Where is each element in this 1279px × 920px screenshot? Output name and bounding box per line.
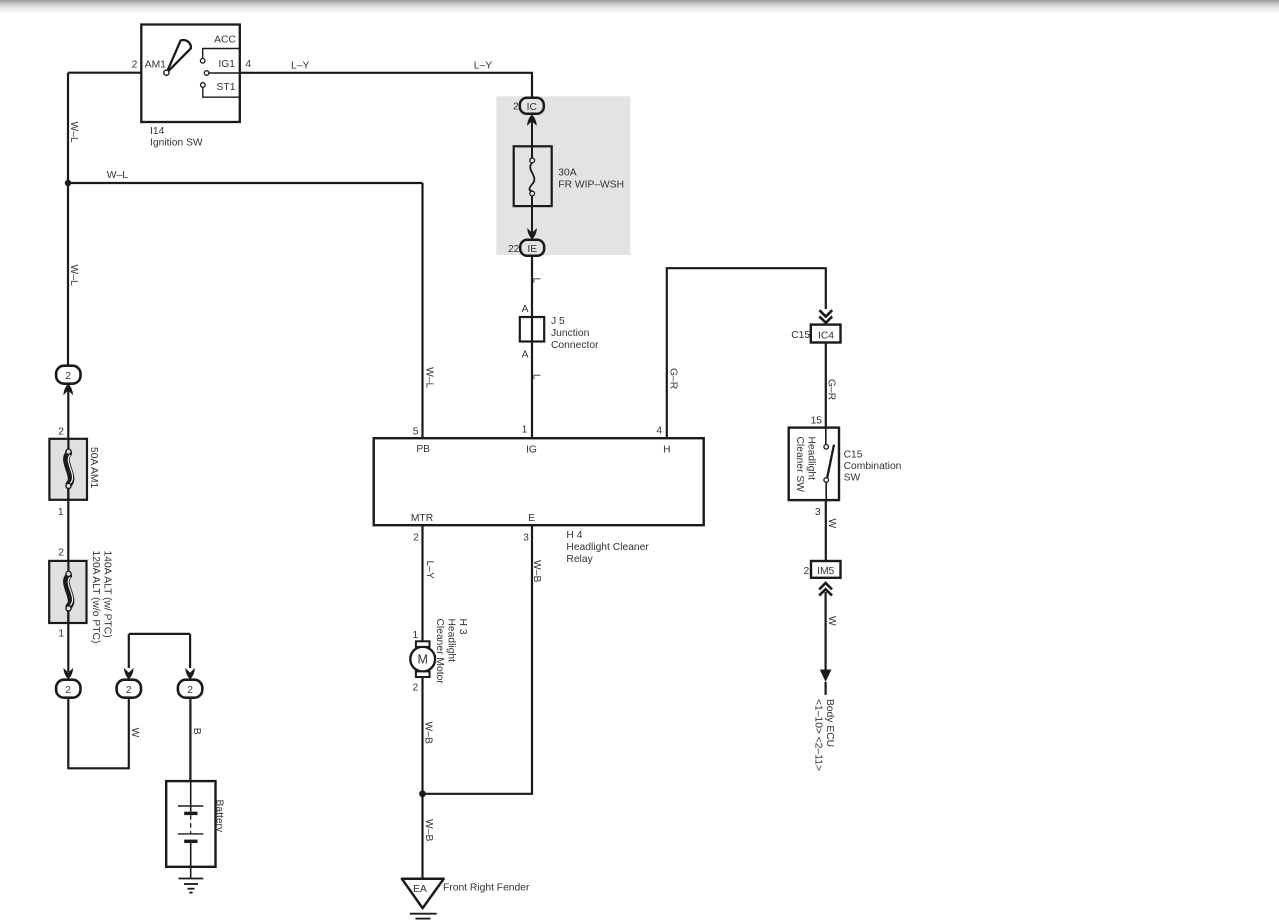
svg-text:IM5: IM5 xyxy=(817,566,834,577)
wire L-Y ignition pin4 to IC xyxy=(240,73,532,99)
pin 1 label (IG) xyxy=(522,424,528,435)
svg-text:1: 1 xyxy=(522,424,528,435)
svg-text:E: E xyxy=(528,513,535,524)
svg-text:W–L: W–L xyxy=(107,170,128,181)
label G-R rotated right xyxy=(826,379,837,400)
wire E to W-B junction xyxy=(423,525,533,794)
svg-text:Headlight: Headlight xyxy=(806,437,817,481)
arrow into IE xyxy=(527,228,537,239)
svg-text:G–R: G–R xyxy=(826,379,837,400)
svg-text:140A ALT (w/ PTC): 140A ALT (w/ PTC) xyxy=(101,551,112,638)
svg-text:2: 2 xyxy=(126,685,132,696)
svg-text:G–R: G–R xyxy=(668,368,679,389)
svg-text:2: 2 xyxy=(65,685,71,696)
fuse 30A FR WIP-WSH xyxy=(514,146,552,206)
svg-text:H 3: H 3 xyxy=(457,619,468,635)
pin 2 label (MTR) xyxy=(413,533,419,544)
wire combination SW to IM5 xyxy=(825,500,827,561)
pin 2 label (ALT fuse) xyxy=(58,547,64,558)
ignition switch I14 box xyxy=(141,25,240,123)
svg-text:W–L: W–L xyxy=(68,265,79,286)
connector IM5 xyxy=(811,561,841,578)
pin 3 label (E) xyxy=(523,533,529,544)
svg-text:Junction: Junction xyxy=(551,328,590,339)
arrow into IC xyxy=(527,115,537,126)
svg-text:2: 2 xyxy=(65,371,71,382)
junction node W-L xyxy=(65,180,71,186)
svg-text:C15: C15 xyxy=(844,449,863,460)
connector oval 2 right xyxy=(178,680,202,698)
svg-text:Front Right Fender: Front Right Fender xyxy=(443,883,530,894)
pin label IG xyxy=(526,445,537,456)
wire PB vertical xyxy=(421,183,423,438)
wire fuse 30A to IE xyxy=(531,196,533,234)
svg-text:AM1: AM1 xyxy=(145,60,166,71)
svg-text:W–B: W–B xyxy=(423,819,434,841)
battery xyxy=(166,781,215,878)
caption Battery rotated xyxy=(214,800,225,833)
svg-text:2: 2 xyxy=(804,566,810,577)
svg-text:ACC: ACC xyxy=(214,35,236,46)
label 50A AM1 rotated xyxy=(88,447,99,488)
label B rotated xyxy=(191,728,202,735)
wire right oval to battery xyxy=(189,698,191,806)
svg-text:2: 2 xyxy=(413,682,419,693)
svg-text:H: H xyxy=(663,445,670,456)
svg-text:L–Y: L–Y xyxy=(291,60,309,71)
svg-text:EA: EA xyxy=(413,884,427,895)
connector oval 2 top xyxy=(56,366,80,384)
label G-R rotated left segment xyxy=(668,368,679,389)
ground EA triangle xyxy=(402,879,444,919)
svg-text:Cleaner Motor: Cleaner Motor xyxy=(434,619,445,685)
svg-text:I14: I14 xyxy=(150,126,165,137)
wire fuse 50A to fuse ALT xyxy=(67,489,69,574)
contact IG1 xyxy=(204,71,209,76)
svg-text:50A AM1: 50A AM1 xyxy=(88,447,99,488)
pin 2 label (50A AM1) xyxy=(58,427,64,438)
wire AM1 pin 2 to left bus xyxy=(68,72,141,74)
label W rotated xyxy=(129,728,140,738)
arrow to Body ECU xyxy=(820,670,832,695)
ACC bracket wire xyxy=(203,49,240,59)
wire motor to W-B junction xyxy=(421,677,423,794)
contact AM1 pivot xyxy=(164,70,169,75)
svg-text:FR WIP–WSH: FR WIP–WSH xyxy=(558,180,624,191)
svg-text:<1–10> <2–11>: <1–10> <2–11> xyxy=(812,699,823,771)
svg-text:J 5: J 5 xyxy=(551,316,565,327)
label W-B rotated lower xyxy=(423,819,434,841)
fuse 50A AM1 xyxy=(49,439,87,500)
arrow into top 2 oval xyxy=(63,384,73,395)
svg-text:W: W xyxy=(826,519,837,529)
pin label E xyxy=(528,513,535,524)
svg-text:Body ECU: Body ECU xyxy=(824,699,835,747)
pin 1 label (50A AM1) xyxy=(58,507,64,518)
svg-text:4: 4 xyxy=(245,59,251,70)
label W-L upper left rotated xyxy=(68,122,79,143)
label A above J5 xyxy=(522,304,529,315)
double chevron into IC4 xyxy=(819,310,832,323)
label W rotated lower xyxy=(826,616,837,626)
svg-text:Relay: Relay xyxy=(566,554,593,565)
contact ACC xyxy=(200,59,205,64)
switch contacts and lever xyxy=(824,445,834,501)
wire MTR to motor xyxy=(421,525,423,641)
svg-text:Headlight: Headlight xyxy=(445,619,456,663)
pin 2 label (motor bottom) xyxy=(413,682,419,693)
label A below J5 xyxy=(522,350,529,361)
svg-text:3: 3 xyxy=(815,507,821,518)
label W-L on PB wire rotated xyxy=(424,367,435,388)
label L-Y rotated on MTR wire xyxy=(424,561,435,579)
label 140A ALT (w PTC) 120A ALT (wo PTC) rotated xyxy=(90,551,113,644)
svg-text:SW: SW xyxy=(844,472,861,483)
label C15 (IC4) xyxy=(791,330,810,341)
pin 2 label (IM5) xyxy=(804,566,810,577)
svg-text:W–B: W–B xyxy=(531,560,542,582)
svg-text:IE: IE xyxy=(527,244,537,255)
svg-text:W–L: W–L xyxy=(68,122,79,143)
label W rotated upper xyxy=(826,519,837,529)
contact ST1 xyxy=(201,83,206,88)
svg-text:L: L xyxy=(531,278,542,284)
svg-text:15: 15 xyxy=(811,415,823,426)
pin 2 label (AM1) xyxy=(132,60,138,71)
label L rotated above J5 xyxy=(531,278,542,284)
caption C15 Combination SW xyxy=(844,449,902,483)
label AM1 xyxy=(145,60,166,71)
connector oval 2 left bottom xyxy=(56,680,80,698)
svg-text:Battery: Battery xyxy=(214,800,225,833)
caption H 3 Headlight Cleaner Motor rotated xyxy=(434,619,468,685)
wire oval to fuse 50A xyxy=(67,391,69,452)
svg-text:2: 2 xyxy=(513,102,519,113)
pin label H xyxy=(663,445,670,456)
wire W-L left bus vertical xyxy=(67,73,69,367)
wire middle oval up to alternator bus xyxy=(128,634,130,668)
label L rotated below J5 xyxy=(531,374,542,380)
wire IC arrow to fuse 30A xyxy=(531,121,533,158)
motor H3 xyxy=(410,641,435,677)
wire horizontal alternator bus xyxy=(129,633,190,635)
arrow into right oval xyxy=(185,668,195,679)
fuse 140A ALT 120A ALT xyxy=(49,561,86,623)
svg-text:B: B xyxy=(191,728,202,735)
pin 1 label (ALT fuse) xyxy=(58,629,64,640)
svg-text:L–Y: L–Y xyxy=(424,561,435,579)
caption I14 Ignition SW xyxy=(150,126,203,149)
svg-text:2: 2 xyxy=(132,60,138,71)
svg-text:ST1: ST1 xyxy=(217,82,236,93)
pin 1 label (motor) xyxy=(413,630,419,641)
caption J 5 Junction Connector xyxy=(551,316,599,351)
wire H pin 4 to IC4 xyxy=(667,268,826,438)
svg-text:2: 2 xyxy=(187,685,193,696)
label Headlight Cleaner SW rotated xyxy=(794,437,817,493)
label IG1 xyxy=(218,59,235,70)
wire junction to ground EA xyxy=(421,794,423,879)
wire bus down to right oval xyxy=(189,634,191,668)
combination switch C15 box xyxy=(789,428,839,501)
svg-text:L–Y: L–Y xyxy=(474,60,492,71)
pin 4 label (IG1) xyxy=(245,59,251,70)
label ACC xyxy=(214,35,236,46)
pin label PB xyxy=(416,444,430,455)
label W-L horizontal wire xyxy=(107,170,128,181)
pin 5 label (PB) xyxy=(413,426,419,437)
svg-text:30A: 30A xyxy=(558,167,576,178)
svg-text:Combination: Combination xyxy=(844,461,902,472)
svg-text:PB: PB xyxy=(416,444,430,455)
svg-text:1: 1 xyxy=(58,507,64,518)
shaded connector area FR WIP-WSH xyxy=(496,96,630,255)
connector oval 2 middle xyxy=(117,680,141,698)
svg-text:M: M xyxy=(417,653,427,667)
connector IC4 xyxy=(811,325,841,343)
svg-text:IG: IG xyxy=(526,445,537,456)
label ST1 xyxy=(217,82,236,93)
label W-B rotated motor wire xyxy=(423,722,434,744)
connector IE oval xyxy=(520,240,544,256)
junction node W-B xyxy=(419,790,426,797)
junction connector J5 xyxy=(520,317,544,342)
svg-text:IG1: IG1 xyxy=(218,59,235,70)
pin 2 label (IC) xyxy=(513,102,519,113)
IG1 wire to box edge xyxy=(209,72,240,74)
connector IC oval xyxy=(520,98,544,114)
label 30A FR WIP-WSH xyxy=(558,167,624,190)
relay H4 box xyxy=(374,438,704,525)
wire U-shape left oval to middle oval xyxy=(68,698,129,769)
pin 3 label (combination SW) xyxy=(815,507,821,518)
svg-text:Ignition SW: Ignition SW xyxy=(150,137,203,148)
svg-text:5: 5 xyxy=(413,426,419,437)
label L-Y right xyxy=(474,60,492,71)
wire fuse ALT to left bottom oval xyxy=(67,611,69,672)
svg-text:3: 3 xyxy=(523,533,529,544)
svg-text:1: 1 xyxy=(413,630,419,641)
label L-Y left xyxy=(291,60,309,71)
svg-text:IC4: IC4 xyxy=(818,330,834,341)
pin label MTR xyxy=(411,513,433,524)
wire IM5 to Body ECU arrow xyxy=(824,592,826,670)
svg-text:2: 2 xyxy=(58,427,64,438)
svg-text:H 4: H 4 xyxy=(566,530,582,541)
svg-text:2: 2 xyxy=(413,533,419,544)
svg-text:W: W xyxy=(826,616,837,626)
svg-text:2: 2 xyxy=(58,547,64,558)
svg-text:W–L: W–L xyxy=(424,367,435,388)
ground below battery xyxy=(179,879,204,893)
wire W-L horizontal to PB xyxy=(68,182,423,184)
svg-text:A: A xyxy=(522,350,529,361)
label W-L lower left rotated xyxy=(68,265,79,286)
svg-text:4: 4 xyxy=(656,426,662,437)
wire IC4 to combination switch xyxy=(825,343,827,428)
arrow into left bottom oval xyxy=(63,668,73,679)
svg-text:A: A xyxy=(522,304,529,315)
svg-text:W–B: W–B xyxy=(423,722,434,744)
pin 4 label (H) xyxy=(656,426,662,437)
svg-text:120A ALT (w/o PTC): 120A ALT (w/o PTC) xyxy=(90,551,101,644)
svg-text:Connector: Connector xyxy=(551,340,599,351)
svg-text:22: 22 xyxy=(508,244,520,255)
pin 22 label (IE) xyxy=(508,244,520,255)
svg-text:C15: C15 xyxy=(791,330,810,341)
svg-text:1: 1 xyxy=(58,629,64,640)
svg-text:IC: IC xyxy=(527,102,538,113)
ST1 bracket wire xyxy=(203,88,240,98)
wire IE to relay pin IG xyxy=(531,256,533,438)
svg-text:Headlight Cleaner: Headlight Cleaner xyxy=(566,542,649,553)
pin 15 label xyxy=(811,415,823,426)
svg-text:W: W xyxy=(129,728,140,738)
double chevron out of IM5 xyxy=(819,583,832,596)
label Front Right Fender xyxy=(443,883,530,894)
switch lever AM1 wiper xyxy=(167,40,191,73)
arrow into middle oval xyxy=(124,668,134,679)
label W-B rotated E wire xyxy=(531,560,542,582)
svg-text:Cleaner SW: Cleaner SW xyxy=(794,437,805,493)
label Body ECU 1-10 2-11 rotated xyxy=(812,699,835,771)
switch wire stub into box xyxy=(825,428,827,445)
svg-text:MTR: MTR xyxy=(411,513,433,524)
svg-text:L: L xyxy=(531,374,542,380)
caption H 4 Headlight Cleaner Relay xyxy=(566,530,649,565)
